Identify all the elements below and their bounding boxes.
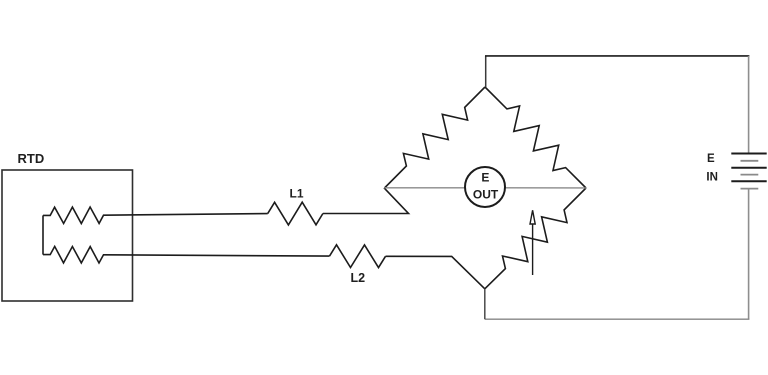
wire: top rail (485, 55, 749, 57)
wire: L1 to bridge left vertex (323, 188, 409, 214)
resistor L2 (lead wire resistance) (330, 245, 386, 268)
meter E OUT circle (465, 167, 505, 207)
wire: bottom rail (485, 318, 750, 320)
svg-text:IN: IN (706, 171, 718, 183)
wire: L2 to bridge bottom vertex (386, 256, 485, 289)
svg-text:RTD: RTD (18, 151, 45, 166)
arrow of variable resistor R3 (530, 210, 535, 275)
wire: RTD internal left vertical (42, 215, 44, 254)
wire: bridge output left (left vertex to meter) (384, 187, 465, 189)
svg-text:E: E (481, 170, 489, 184)
resistor R1 (bridge top-left arm) (385, 87, 486, 188)
wire: right rail upper (to battery +) (748, 56, 750, 154)
wire: bottom lead from RTD to L2 (104, 255, 330, 256)
resistor R2 (bridge top-right arm) (485, 87, 586, 188)
resistor RTD bottom element (43, 246, 104, 263)
wire: bottom vertex to bottom rail (484, 289, 486, 319)
RTD enclosure box (2, 170, 133, 301)
svg-text:OUT: OUT (473, 187, 499, 201)
resistor RTD top element (43, 207, 104, 224)
svg-text:E: E (707, 153, 715, 165)
wire: right rail lower (battery - to bottom rail) (748, 189, 750, 320)
variable resistor R3 (bridge bottom-right arm, balancing) (485, 188, 586, 289)
wire: top vertex to top rail (485, 56, 487, 87)
svg-text:L1: L1 (290, 186, 304, 200)
svg-text:L2: L2 (351, 271, 366, 285)
wire: bridge output right (meter to right vertex) (505, 187, 586, 189)
battery E IN (731, 154, 766, 189)
wire: top lead from RTD to L1 (104, 214, 268, 216)
resistor L1 (lead wire resistance) (268, 202, 323, 225)
